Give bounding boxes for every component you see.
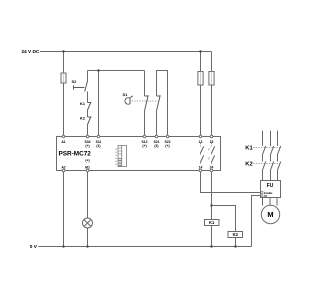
contactor K1 main contacts [263, 146, 281, 155]
svg-text:14: 14 [199, 166, 203, 170]
wire feeder from S2 top [88, 70, 145, 72]
wire S22 bridge [157, 71, 168, 137]
svg-text:(1): (1) [96, 144, 100, 148]
svg-text:23: 23 [210, 140, 214, 144]
svg-text:K1: K1 [80, 101, 86, 106]
wire branch to K2 coil [212, 206, 236, 232]
svg-text:(+): (+) [85, 144, 89, 148]
switch S2 contact [85, 81, 88, 92]
wire channel1 drop [144, 71, 146, 97]
svg-text:K2: K2 [233, 232, 239, 237]
contactor coil K1 [205, 220, 220, 226]
svg-text:24 V DC: 24 V DC [21, 49, 40, 55]
svg-text:K1: K1 [245, 146, 253, 152]
switch S1 contact ch2 [157, 95, 161, 97]
fuse F3 [209, 72, 214, 86]
wire lamp to 0V [87, 228, 89, 247]
svg-text:K2: K2 [245, 162, 252, 168]
fuse F1 [61, 73, 66, 83]
frequency converter FU [261, 181, 281, 198]
svg-text:24: 24 [210, 166, 214, 170]
S1 e-stop actuator [125, 98, 130, 104]
svg-text:(2): (2) [154, 144, 158, 148]
wire 0V to FU 0V pin [252, 196, 261, 247]
switch S1 contact ch1 [145, 95, 149, 97]
contactor coil K2 [228, 232, 243, 238]
svg-text:S2: S2 [72, 79, 78, 84]
node rail-A1 junction [62, 50, 64, 52]
wire K2 to S34 [87, 125, 89, 137]
svg-text:(+): (+) [85, 159, 89, 163]
node K1-0V junction [210, 245, 212, 247]
wire A2 drop [63, 171, 65, 247]
svg-text:0 V: 0 V [30, 244, 38, 250]
wire ch1 to S12 [144, 111, 146, 137]
terminal circles [62, 135, 213, 172]
wire 24 drop [211, 171, 213, 220]
relay box PSR-MC72 [57, 137, 221, 171]
wire K1 coil to 0V [211, 226, 213, 247]
wire 23 drop with fuse [211, 52, 213, 137]
phase line L1 [262, 131, 264, 181]
svg-text:PSR-MC72: PSR-MC72 [59, 151, 92, 158]
S2 actuator [74, 85, 85, 90]
labels [21, 49, 40, 250]
node feeder-S11 junction [97, 69, 99, 71]
node K2-0V junction [234, 245, 236, 247]
lamp indicator [83, 218, 93, 228]
motor M [261, 205, 279, 223]
svg-text:S1: S1 [123, 92, 129, 97]
fuse F2 [198, 72, 203, 86]
internal contact 13-14 [200, 143, 202, 165]
contactor K2 main contacts [263, 162, 281, 171]
wire K2 coil to 0V [235, 238, 237, 247]
node 24 branch junction [210, 204, 212, 206]
wire 14 to FU enable [201, 171, 261, 193]
svg-text:13: 13 [199, 140, 203, 144]
svg-text:(+): (+) [165, 144, 169, 148]
node rail-13 junction [199, 50, 201, 52]
svg-text:K2: K2 [80, 116, 86, 121]
svg-text:FU: FU [267, 183, 274, 189]
wire ch2 to S21 [156, 111, 158, 137]
svg-text:A1: A1 [61, 140, 65, 144]
wire FU to motor [263, 198, 278, 206]
wire M1 to lamp [87, 171, 89, 219]
wire K1 to K2 [87, 110, 89, 117]
0 V rail [39, 246, 252, 248]
24 V DC rail [40, 51, 212, 53]
contact K1 feedback [88, 102, 92, 104]
phase line L3 [277, 131, 279, 181]
svg-text:M1: M1 [85, 166, 90, 170]
internal logic block [115, 149, 117, 167]
svg-text:A2: A2 [61, 166, 65, 170]
node lamp-0V junction [86, 245, 88, 247]
svg-text:Enable: Enable [264, 191, 273, 195]
wire S2 branch upper lead [87, 71, 89, 82]
wire S11 riser [98, 71, 100, 137]
svg-text:K1: K1 [209, 220, 215, 225]
contact K2 feedback [88, 116, 92, 118]
wire 13 drop with fuse [200, 52, 202, 137]
svg-text:0V: 0V [264, 194, 267, 198]
wire A1 drop [63, 52, 65, 137]
svg-text:M: M [267, 210, 273, 219]
phase line L2 [270, 131, 272, 181]
node A2-0V junction [62, 245, 64, 247]
internal contact 23-24 [211, 143, 213, 165]
svg-text:(+): (+) [142, 144, 146, 148]
wire S2 to K1 [87, 92, 89, 103]
